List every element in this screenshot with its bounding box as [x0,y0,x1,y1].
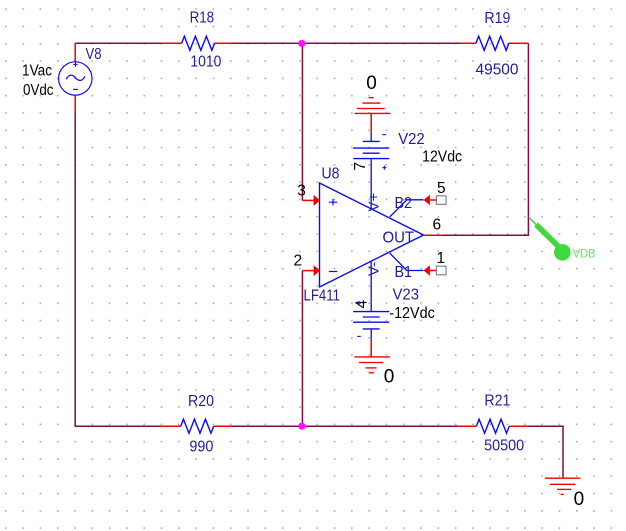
ground 0 at R21 [545,478,584,510]
svg-text:R21: R21 [484,393,510,410]
svg-text:V8: V8 [86,46,102,63]
V22 minus mark [382,134,386,136]
svg-text:V23: V23 [393,287,420,304]
wire R19 output drop vertical [527,43,529,235]
V22 plate long 2 [353,158,389,160]
ground (V22) bar 4 [369,97,374,99]
pin B2 arrow [424,195,430,206]
svg-text:12Vdc: 12Vdc [422,149,462,166]
pin 4 V- line [370,261,372,311]
svg-text:V+: V+ [365,192,382,211]
svg-text:R18: R18 [190,10,215,27]
V23 plate short 2 [363,328,380,330]
resistor R18 left lead [162,42,182,44]
resistor R18 right lead [215,42,232,44]
battery V22 [353,113,462,169]
resistor R19 left lead [460,42,476,44]
V8 minus mark [73,88,78,90]
wire middle vertical upper (to pin 3) [301,43,303,200]
svg-text:0: 0 [574,489,585,510]
pin B2 stub [390,200,424,217]
voltage source V8 [22,43,102,113]
svg-text:-12Vdc: -12Vdc [389,305,435,322]
V8 top pin lead [74,43,76,62]
resistor R19 [460,10,529,79]
resistor R18 body [182,36,215,50]
V22 plus mark [382,166,386,170]
wire right-bottom vertical to ground [562,425,564,478]
pin 3 lead and arrow [302,199,314,201]
V22 top pin lead (red) [370,113,372,131]
ground (V22) bar 2 [357,108,385,110]
V22 plate long 1 [353,147,389,149]
resistor R21 left lead [459,425,477,427]
V23 plus mark [357,301,361,305]
svg-text:B2: B2 [395,195,413,212]
ground (V22) bar 3 [362,102,380,104]
ground (R21) bar 3 [557,488,571,490]
wire left vertical [74,114,76,427]
V23 bottom pin lead (red) [370,339,372,357]
svg-text:990: 990 [189,439,213,456]
V23 plate short 1 [363,316,380,318]
svg-text:1: 1 [437,250,446,267]
ground (V23) bar 3 [366,367,377,369]
svg-text:U8: U8 [322,166,340,183]
V23 plate long 2 [353,321,389,323]
ground 0 above V22 [355,73,391,113]
svg-text:3: 3 [297,182,306,199]
ground (V23) bar 2 [359,362,383,364]
svg-text:5: 5 [437,180,446,197]
pin 5 box [436,196,446,205]
wire top horizontal left [75,42,161,44]
ground (V22) bar 1 [355,112,391,114]
V23 plate long 1 [353,311,389,313]
ground (R21) bar 4 [561,493,564,495]
VDB probe shaft [536,225,559,248]
VDB probe head [554,244,571,261]
svg-text:50500: 50500 [484,438,524,455]
svg-text:4: 4 [354,300,371,309]
ground (R21) bar 2 [550,483,576,485]
svg-text:0: 0 [366,73,377,94]
svg-text:V-: V- [365,262,382,276]
V22 top stub (blue) [370,132,372,142]
ground 0 below V23 [355,357,395,387]
V8 sine symbol [66,75,85,80]
wire bottom horizontal mid [233,425,459,427]
wire top horizontal right [232,42,460,44]
resistor R21 [459,393,528,455]
V8 bottom pin lead [74,95,76,113]
wire middle vertical lower (to pin 2) [301,271,303,427]
svg-text:0: 0 [384,366,395,387]
resistor R20 body [181,419,214,433]
svg-text:VDB: VDB [573,246,596,260]
ground (V23) bar 1 [355,356,390,358]
junction node bottom [298,423,305,430]
ground (R21) bar 1 [545,477,581,479]
VDB probe needle [529,218,537,226]
V23 bottom stub (blue) [370,329,372,339]
pin 2 lead and arrow [302,270,314,272]
pin B1 stub [390,253,424,270]
svg-text:0Vdc: 0Vdc [23,82,54,99]
resistor R21 body [476,419,509,433]
pin 7 V+ line [370,159,372,209]
V8 body circle [59,62,92,95]
resistor R18 [162,10,232,71]
V22 plate short 2 [363,152,380,154]
junction node top [298,40,305,47]
svg-text:LF411: LF411 [304,288,341,305]
op-amp U8 triangle [320,183,424,287]
pin 6 output lead [424,234,442,236]
svg-text:1Vac: 1Vac [22,62,52,79]
V22 plate short 1 [363,140,380,142]
svg-text:1010: 1010 [190,53,221,70]
resistor R20 [161,393,232,456]
svg-text:R19: R19 [484,10,510,27]
svg-text:B1: B1 [395,264,413,281]
svg-text:7: 7 [352,162,369,171]
resistor R19 right lead [509,42,529,44]
op-amp minus input mark [329,271,337,273]
resistor R19 body [476,36,509,50]
pin 1 box [436,266,446,275]
wire bottom horizontal right [527,425,563,427]
svg-text:V22: V22 [398,131,425,148]
VDB probe marker [529,218,595,261]
V8 plus mark [73,62,78,67]
pin B2 red stub [430,199,437,201]
pin B1 arrow [424,265,430,276]
wire output horizontal [442,234,529,236]
V23 minus mark [357,335,360,337]
svg-text:R20: R20 [188,393,214,410]
ground (V23) bar 4 [369,372,374,374]
battery V23 [353,287,435,357]
wire bottom horizontal left [75,425,162,427]
svg-text:49500: 49500 [476,62,519,79]
resistor R20 left lead [161,425,180,427]
pin B1 red stub [430,270,437,272]
svg-text:6: 6 [433,217,442,234]
resistor R21 right lead [509,425,527,427]
op-amp plus input mark [329,199,337,205]
svg-text:2: 2 [294,253,303,270]
svg-text:OUT: OUT [383,229,415,246]
resistor R20 right lead [214,425,233,427]
